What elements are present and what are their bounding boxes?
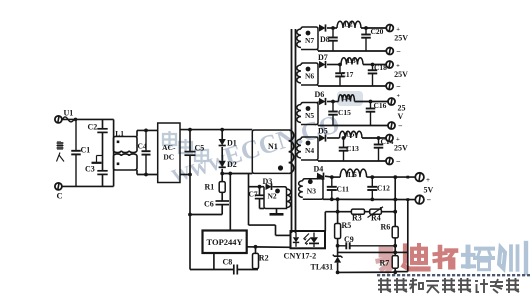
- svg-text:C13: C13: [346, 144, 359, 153]
- svg-text:CNY17-2: CNY17-2: [284, 252, 317, 261]
- svg-text:C2: C2: [88, 123, 98, 132]
- svg-text:C17: C17: [341, 70, 354, 79]
- svg-text:C7: C7: [249, 190, 258, 199]
- svg-text:C9: C9: [344, 235, 354, 244]
- svg-text:C11: C11: [337, 185, 350, 194]
- svg-text:−: −: [396, 82, 401, 91]
- svg-text:+: +: [396, 26, 400, 33]
- svg-text:25V: 25V: [394, 70, 408, 79]
- svg-text:C5: C5: [195, 144, 205, 153]
- svg-text:D8: D8: [320, 35, 330, 44]
- svg-text:D4: D4: [314, 165, 324, 174]
- svg-text:L3: L3: [347, 56, 356, 65]
- svg-text:R1: R1: [205, 183, 215, 192]
- svg-text:−: −: [396, 47, 401, 56]
- svg-text:L5: L5: [346, 130, 355, 139]
- svg-text:−: −: [396, 157, 401, 166]
- svg-text:C16: C16: [374, 101, 387, 110]
- svg-text:TOP244Y: TOP244Y: [206, 237, 242, 247]
- svg-text:25V: 25V: [394, 34, 408, 43]
- svg-text:L4: L4: [342, 93, 351, 102]
- svg-text:R4: R4: [371, 214, 381, 223]
- svg-text:R2: R2: [259, 254, 269, 263]
- svg-text:C12: C12: [377, 184, 390, 193]
- svg-text:+: +: [396, 63, 400, 70]
- svg-text:V: V: [398, 112, 404, 121]
- svg-text:C18: C18: [374, 63, 387, 72]
- svg-text:D6: D6: [315, 90, 325, 99]
- svg-text:R5: R5: [342, 221, 352, 230]
- svg-text:C8: C8: [223, 258, 233, 267]
- svg-text:C20: C20: [371, 27, 384, 36]
- svg-text:+: +: [396, 136, 400, 143]
- svg-text:N1: N1: [268, 142, 278, 151]
- svg-text:R7: R7: [380, 259, 390, 268]
- svg-text:N6: N6: [305, 72, 314, 81]
- svg-text:−: −: [398, 122, 403, 131]
- svg-text:+: +: [397, 94, 401, 100]
- svg-text:D3: D3: [263, 177, 273, 186]
- svg-text:−: −: [427, 196, 432, 205]
- svg-text:C1: C1: [81, 146, 91, 155]
- svg-text:L2: L2: [344, 20, 353, 29]
- svg-text:C: C: [57, 191, 63, 201]
- svg-text:C6: C6: [204, 200, 214, 209]
- svg-text:R3: R3: [352, 214, 362, 223]
- svg-text:D7: D7: [318, 53, 328, 62]
- svg-text:TL431: TL431: [311, 263, 334, 272]
- svg-text:R6: R6: [381, 223, 391, 232]
- svg-text:N5: N5: [305, 111, 314, 120]
- svg-text:N2: N2: [268, 192, 277, 201]
- svg-text:U1: U1: [64, 109, 74, 118]
- svg-text:N7: N7: [305, 36, 314, 45]
- svg-text:L6: L6: [348, 170, 357, 179]
- svg-text:25V: 25V: [394, 144, 408, 153]
- svg-text:DC: DC: [163, 153, 174, 162]
- svg-text:C4: C4: [138, 142, 147, 151]
- svg-text:D2: D2: [227, 160, 237, 169]
- svg-text:5V: 5V: [424, 186, 434, 195]
- svg-text:D5: D5: [318, 127, 328, 136]
- svg-text:N3: N3: [307, 187, 316, 196]
- svg-text:N4: N4: [305, 146, 314, 155]
- svg-text:AC-: AC-: [162, 143, 176, 152]
- svg-text:C3: C3: [85, 165, 95, 174]
- svg-text:C15: C15: [338, 108, 351, 117]
- svg-text:+: +: [426, 176, 430, 184]
- svg-text:D1: D1: [227, 139, 237, 148]
